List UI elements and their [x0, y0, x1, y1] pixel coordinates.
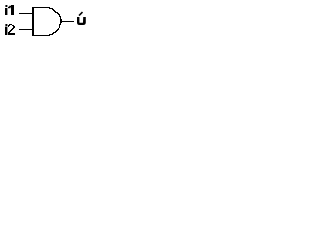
wire i2 to gate	[19, 29, 32, 30]
node u (output label)	[77, 12, 86, 25]
and-gate curved output side (pixel runs)	[49, 8, 62, 35]
and-gate bottom edge	[32, 35, 50, 36]
and-gate left edge	[32, 7, 34, 36]
node i1 (input label)	[5, 5, 14, 15]
and-gate top edge	[32, 7, 50, 8]
wire i1 to gate	[19, 13, 32, 14]
wire gate output	[60, 21, 74, 22]
node i2 (input label)	[5, 24, 15, 35]
